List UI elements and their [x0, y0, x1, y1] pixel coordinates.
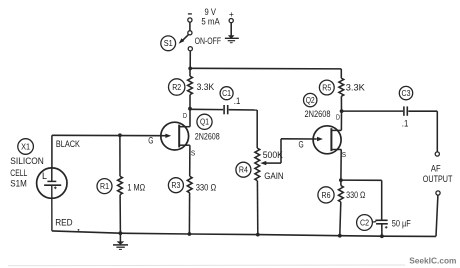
- svg-text:R1: R1: [100, 182, 109, 191]
- svg-text:Q1: Q1: [200, 118, 209, 127]
- svg-text:X1: X1: [21, 142, 30, 151]
- svg-text:RED: RED: [55, 217, 73, 228]
- svg-text:S1M: S1M: [10, 179, 27, 190]
- svg-text:R5: R5: [322, 83, 331, 92]
- svg-text:S: S: [191, 151, 196, 158]
- svg-text:R3: R3: [171, 181, 180, 190]
- svg-text:5 mA: 5 mA: [201, 16, 220, 27]
- svg-text:330 Ω: 330 Ω: [196, 183, 217, 194]
- svg-text:C3: C3: [402, 89, 411, 98]
- svg-text:G: G: [299, 140, 304, 151]
- svg-text:L: L: [42, 171, 47, 181]
- svg-text:3.3K: 3.3K: [346, 83, 366, 94]
- svg-text:3.3K: 3.3K: [197, 82, 215, 93]
- svg-text:.1: .1: [402, 118, 409, 129]
- svg-text:D: D: [183, 113, 187, 120]
- svg-text:.1: .1: [234, 96, 241, 107]
- svg-text:1 MΩ: 1 MΩ: [127, 183, 145, 194]
- svg-text:D: D: [336, 114, 340, 121]
- svg-text:+: +: [229, 9, 234, 19]
- svg-text:BLACK: BLACK: [56, 139, 81, 150]
- svg-text:CELL: CELL: [10, 168, 27, 179]
- svg-text:GAIN: GAIN: [264, 171, 284, 182]
- svg-text:SILICON: SILICON: [10, 156, 44, 167]
- svg-text:AF: AF: [431, 163, 441, 174]
- svg-text:2N2608: 2N2608: [195, 131, 220, 142]
- svg-text:330 Ω: 330 Ω: [346, 190, 365, 201]
- svg-text:SeekIC.com: SeekIC.com: [409, 256, 457, 266]
- svg-text:50 µF: 50 µF: [392, 218, 411, 229]
- svg-text:500K: 500K: [263, 150, 284, 161]
- svg-text:2N2608: 2N2608: [305, 109, 331, 120]
- svg-text:ON-OFF: ON-OFF: [195, 36, 222, 47]
- svg-text:C1: C1: [222, 89, 231, 98]
- svg-text:R2: R2: [172, 83, 181, 92]
- svg-text:C2: C2: [360, 218, 369, 227]
- svg-text:R4: R4: [239, 166, 248, 175]
- svg-text:S1: S1: [164, 39, 173, 48]
- svg-text:R6: R6: [322, 191, 331, 200]
- svg-text:S: S: [342, 152, 347, 159]
- svg-text:G: G: [148, 136, 153, 147]
- svg-text:OUTPUT: OUTPUT: [423, 174, 453, 185]
- svg-text:Q2: Q2: [306, 96, 315, 105]
